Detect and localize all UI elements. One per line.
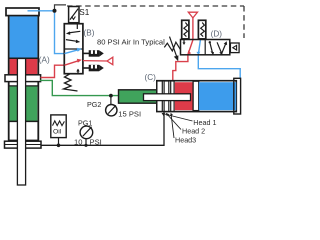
head plate 3	[171, 81, 174, 111]
wire red: supply down into valve D and to ram C	[173, 18, 193, 84]
valve D red flow arrowhead	[187, 50, 191, 54]
wire blue: valve D to ram C end cap	[198, 38, 240, 78]
wire green: cylinder A flange to PG2 and ram C	[40, 80, 118, 95]
ram C outer shell	[157, 81, 237, 112]
svg-text:(B): (B)	[84, 29, 95, 38]
svg-text:15 PSI: 15 PSI	[118, 110, 141, 119]
cylinder A air chamber (blue)	[10, 16, 38, 57]
svg-text:PSI: PSI	[90, 137, 102, 146]
wire: bottom oil bus	[41, 112, 164, 145]
valve D right box arrows	[210, 42, 213, 53]
ram C piston rod	[144, 94, 191, 101]
head pointer 3	[171, 114, 174, 139]
svg-text:(C): (C)	[145, 73, 157, 82]
cylinder A green chamber	[10, 86, 18, 121]
port muffler bottom	[83, 65, 104, 72]
valve D pilot triangle (red)	[188, 12, 197, 18]
valve D left box port stub under coil 1	[183, 40, 185, 44]
valve D blue flow arrowhead	[196, 52, 200, 55]
head pointer 2	[167, 114, 182, 130]
valve B return spring	[64, 74, 78, 91]
svg-text:Oil: Oil	[53, 128, 62, 135]
ram C end cap	[234, 78, 241, 114]
cylinder A bottom flange	[5, 141, 42, 148]
air supply line into valve B	[83, 60, 107, 62]
valve D spring + adjust arrow	[164, 42, 180, 51]
wire blue: cylinder A cap to valve B	[28, 11, 65, 54]
ram C piston	[193, 81, 199, 110]
gauge PG1	[80, 126, 93, 145]
ram C red chamber	[175, 82, 193, 110]
valve B lower box blue path	[65, 50, 80, 54]
svg-text:Head3: Head3	[175, 135, 196, 144]
head pointer 1	[163, 114, 193, 122]
cylinder A top cap	[6, 8, 39, 16]
svg-text:80 PSI Air In Typical: 80 PSI Air In Typical	[97, 38, 165, 47]
solenoid S1	[69, 7, 79, 23]
head plate 1	[157, 81, 162, 111]
valve B lower box red path	[65, 61, 80, 66]
ram C green tube	[119, 90, 160, 103]
valve B upper box flow arrows	[76, 24, 78, 29]
svg-text:S1: S1	[79, 8, 89, 17]
cylinder A upper flange	[5, 75, 41, 82]
cylinder A red chamber	[10, 59, 18, 75]
valve D solenoid coil 1	[182, 20, 189, 39]
cylinder A body	[5, 8, 42, 185]
valve D body	[181, 40, 230, 56]
valve D exhaust end box	[230, 43, 239, 53]
gauge PG2	[106, 94, 117, 116]
node: oil box junction	[57, 144, 61, 148]
valve B lower box bottom port stub	[77, 69, 79, 73]
dashed enclosure border (air supply typical)	[55, 5, 245, 38]
valve D solenoid coil 2	[198, 20, 205, 39]
svg-text:Head 2: Head 2	[182, 127, 205, 136]
oil reservoir	[51, 115, 66, 145]
svg-text:(A): (A)	[39, 55, 50, 64]
node: junction dot on blue wire	[53, 9, 57, 13]
cylinder A piston rod	[17, 59, 25, 186]
svg-text:10: 10	[74, 137, 82, 146]
svg-text:(D): (D)	[211, 30, 223, 39]
port muffler top	[83, 50, 104, 57]
node: PG1 junction	[84, 144, 87, 147]
valve B body	[64, 24, 83, 74]
svg-text:PG1: PG1	[78, 119, 92, 128]
wire red: valve B to cylinder A flange	[41, 65, 65, 77]
head plate 2	[164, 81, 169, 111]
svg-text:PG2: PG2	[87, 100, 101, 109]
ram C blue chamber	[199, 82, 236, 110]
